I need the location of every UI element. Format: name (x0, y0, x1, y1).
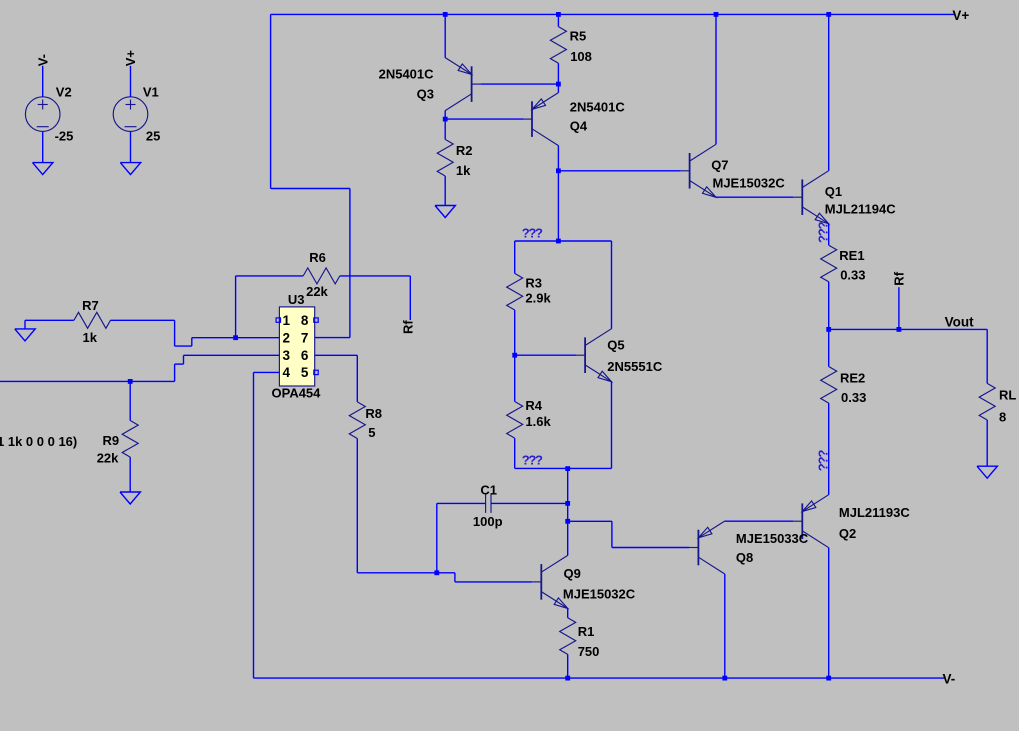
junction Q3 collector node (443, 117, 448, 122)
wire V2 bottom (42, 132, 44, 163)
wire pin6 right (315, 354, 358, 356)
junction rail x558 (556, 12, 561, 17)
junction rail x829 (826, 12, 831, 17)
wire Q1 collector to rail (828, 14, 830, 170)
resistor RE2 (821, 367, 837, 404)
wire ground stub R7 (24, 320, 26, 329)
wire Q3 base node (481, 83, 559, 85)
svg-text:8: 8 (999, 410, 1006, 425)
ground R2 (435, 206, 455, 218)
wire Q9 base jog 3 (455, 581, 532, 583)
ground V2 (33, 163, 53, 175)
svg-text:U3: U3 (288, 292, 305, 307)
svg-text:1.6k: 1.6k (525, 414, 551, 429)
wire input jog up2 (183, 355, 185, 364)
svg-text:R7: R7 (82, 298, 99, 313)
svg-text:R1: R1 (578, 624, 595, 639)
wire to Q8 base (612, 547, 690, 549)
wire RE1 to output node (828, 282, 830, 330)
svg-text:25: 25 (146, 128, 160, 143)
wire V- rail (254, 677, 945, 679)
junction bias bottom node (565, 466, 570, 471)
resistor R9 (122, 421, 138, 458)
wire R2 to ground (444, 176, 446, 206)
svg-text:1 1k 0 0 0 16): 1 1k 0 0 0 16) (0, 434, 77, 449)
wire pin4 down to V- rail (253, 372, 255, 678)
svg-text:RE2: RE2 (840, 371, 865, 386)
svg-text:R6: R6 (309, 250, 326, 265)
svg-text:Q5: Q5 (607, 338, 624, 353)
wire output to RE2 (828, 329, 830, 366)
svg-text:R5: R5 (570, 29, 587, 44)
svg-text:7: 7 (301, 330, 309, 345)
op-amp U3 OPA454 body (279, 307, 314, 386)
svg-text:V-: V- (943, 672, 956, 687)
wire Q9 emitter to R1 (567, 608, 569, 618)
wire Q4 collector down (557, 146, 559, 242)
wire Q1 emitter to RE1 (828, 224, 830, 246)
wire input jog up (174, 364, 176, 381)
wire pin2 lead (236, 337, 280, 339)
wire C1 left lead (437, 502, 486, 504)
wire R5 to Q4 emitter node (557, 63, 559, 84)
wire pin7 to x350 (315, 337, 350, 339)
wire horizontal to x350 (271, 188, 350, 190)
svg-text:R3: R3 (525, 275, 542, 290)
svg-text:R9: R9 (103, 433, 120, 448)
svg-text:-25: -25 (55, 128, 74, 143)
svg-text:R4: R4 (525, 398, 542, 413)
junction Q9 collector node (565, 519, 570, 524)
junction pin2 node (233, 335, 238, 340)
svg-text:MJE15033C: MJE15033C (736, 531, 809, 546)
wire R1 to V- rail (567, 654, 569, 678)
wire R7 to pin2 node (192, 337, 236, 339)
svg-text:V+: V+ (952, 8, 969, 23)
svg-text:???: ??? (816, 450, 831, 472)
transistor Q1 MJL21194C npn (793, 171, 828, 224)
wire R6 right lead (340, 275, 411, 277)
wire ground to R7 (25, 319, 74, 321)
resistor R5 (550, 27, 566, 64)
junction C1 right (565, 501, 570, 506)
junction R5 bottom node (556, 82, 561, 87)
svg-text:???: ??? (522, 226, 543, 241)
junction R9 tap (128, 379, 133, 384)
wire to Q5 base (515, 354, 576, 356)
resistor R3 (507, 273, 523, 310)
wire Q3 emitter to rail (444, 14, 446, 57)
U3 pin 1 marker (276, 318, 280, 322)
wire rail to R5 (557, 14, 559, 26)
wire V1 top (130, 66, 132, 97)
junction Q9 base node (434, 570, 439, 575)
wire Rf stub (898, 287, 900, 329)
svg-text:100p: 100p (473, 514, 503, 529)
wire to R3 (514, 241, 516, 273)
wire Q3 collector to Q4 base (445, 118, 523, 120)
resistor R8 (349, 402, 365, 439)
junction output node (826, 327, 831, 332)
wire Q5 collector up (611, 241, 613, 329)
wire R8 down (356, 439, 358, 573)
wire to pin3 (184, 354, 280, 356)
junction Q5 base node (512, 353, 517, 358)
wire Q3 collector down (444, 111, 446, 140)
wire jog down (611, 521, 613, 547)
svg-text:V-: V- (35, 54, 50, 66)
wire RE2 to Q2 emitter (828, 403, 830, 495)
transistor Q3 2N5401C pnp (445, 58, 480, 111)
wire bias bottom horizontal (515, 467, 612, 469)
svg-text:Q4: Q4 (570, 118, 588, 133)
svg-text:???: ??? (816, 221, 831, 243)
wire input jog right (175, 363, 184, 365)
svg-text:Q1: Q1 (825, 184, 842, 199)
wire Q5 emitter down (611, 382, 613, 469)
wire input long horizontal (0, 380, 175, 382)
svg-text:MJL21193C: MJL21193C (839, 505, 910, 520)
resistor R1 (560, 618, 576, 655)
junction bias top node (556, 239, 561, 244)
wire output to RL (829, 328, 988, 330)
svg-text:Vout: Vout (945, 315, 974, 330)
svg-text:C1: C1 (480, 482, 497, 497)
ground RL (977, 466, 997, 478)
wire bias node down to Q9 collector (567, 469, 569, 556)
capacitor C1 (486, 494, 491, 513)
svg-text:V1: V1 (143, 85, 159, 100)
svg-text:2.9k: 2.9k (525, 291, 551, 306)
U3 pin 5 marker (314, 370, 318, 374)
svg-text:MJE15032C: MJE15032C (563, 586, 636, 601)
svg-text:0.33: 0.33 (841, 390, 866, 405)
wire Q7 collector to rail (715, 14, 717, 144)
svg-text:6: 6 (301, 348, 309, 363)
wire V+ rail (271, 13, 954, 15)
wire R7 right (111, 319, 175, 321)
wire Q9 base jog 2 (454, 573, 456, 582)
svg-text:V+: V+ (123, 50, 138, 67)
svg-text:1: 1 (282, 313, 290, 328)
wire Q8 emitter to Q2 base (725, 520, 794, 522)
svg-text:22k: 22k (97, 450, 119, 465)
svg-text:1k: 1k (456, 163, 471, 178)
wire Q2 collector to V- rail (828, 548, 830, 679)
resistor R4 (507, 402, 523, 439)
wire to Rf label left (409, 276, 411, 320)
junction rail x445 (443, 12, 448, 17)
svg-text:Q2: Q2 (839, 526, 856, 541)
svg-text:RL: RL (999, 388, 1016, 403)
svg-text:750: 750 (578, 644, 600, 659)
svg-text:Q8: Q8 (736, 550, 753, 565)
resistor RL (979, 383, 995, 420)
wire Q7 emitter to Q1 base (716, 196, 793, 198)
resistor RE1 (821, 245, 837, 282)
wire R8 to Q9 base node (357, 572, 437, 574)
wire RL to ground (986, 420, 988, 466)
svg-text:4: 4 (282, 365, 290, 380)
transistor Q8 MJE15033C pnp (689, 521, 724, 574)
wire C1 left down (436, 503, 438, 572)
svg-text:3: 3 (282, 348, 290, 363)
svg-text:2: 2 (282, 330, 290, 345)
wire C1 right lead (491, 502, 568, 504)
transistor Q2 MJL21193C pnp (793, 495, 828, 548)
svg-text:MJE15032C: MJE15032C (713, 175, 786, 190)
junction V- rail x829 (826, 676, 831, 681)
svg-text:1k: 1k (83, 330, 98, 345)
svg-text:R8: R8 (365, 406, 382, 421)
svg-text:V2: V2 (56, 85, 72, 100)
wire R6 left lead (236, 275, 304, 277)
ground V1 (120, 163, 140, 175)
wire V1 bottom (130, 132, 132, 163)
junction Rf tap (897, 327, 902, 332)
wire vertical x350 to pin7 (349, 189, 351, 338)
wire R3 to Q5 base node (514, 310, 516, 355)
wire to Q7 base (558, 170, 680, 172)
svg-text:22k: 22k (306, 284, 328, 299)
svg-text:MJL21194C: MJL21194C (825, 201, 896, 216)
svg-text:2N5551C: 2N5551C (607, 359, 663, 374)
voltage source V2 symbol (25, 97, 60, 132)
junction V- rail x724 (722, 676, 727, 681)
wire R6 left down to pin2 node (235, 276, 237, 338)
wire bias top horizontal (515, 240, 612, 242)
transistor Q9 MJE15032C npn (532, 555, 567, 608)
svg-text:5: 5 (368, 425, 375, 440)
resistor R2 (437, 139, 453, 176)
U3 pin 8 marker (314, 318, 318, 322)
wire R7 jog right (175, 345, 192, 347)
wire Q9 collector to Q8 base jog (568, 520, 612, 522)
wire R9 to ground (129, 457, 131, 492)
svg-text:2N5401C: 2N5401C (379, 67, 435, 82)
junction VAS top node (556, 168, 561, 173)
svg-text:Rf: Rf (401, 320, 416, 334)
resistor R6 (303, 268, 340, 284)
wire pin6 down to R8 (356, 355, 358, 402)
wire R4 to bias bottom (514, 438, 516, 468)
wire pin4 lead (254, 371, 280, 373)
svg-text:???: ??? (522, 453, 543, 468)
wire R7 jog down (174, 320, 176, 346)
wire Q9 base jog 1 (437, 572, 455, 574)
wire Vout down to RL (986, 329, 988, 383)
svg-text:Q9: Q9 (564, 566, 581, 581)
wire Q8 collector to V- rail (724, 574, 726, 678)
transistor Q5 2N5551C npn (576, 329, 611, 382)
transistor Q7 MJE15032C npn (681, 144, 716, 197)
svg-text:0.33: 0.33 (840, 268, 865, 283)
transistor Q4 2N5401C pnp (523, 93, 558, 146)
junction V- rail x567 (565, 676, 570, 681)
wire V2 top (42, 66, 44, 97)
svg-text:OPA454: OPA454 (272, 385, 322, 400)
svg-text:5: 5 (301, 365, 309, 380)
svg-text:Q7: Q7 (711, 157, 728, 172)
wire Q4 emitter stub (557, 84, 559, 93)
svg-text:RE1: RE1 (839, 248, 864, 263)
svg-text:108: 108 (570, 49, 592, 64)
wire left drop from rail (270, 14, 272, 188)
svg-text:R2: R2 (456, 143, 473, 158)
svg-text:2N5401C: 2N5401C (570, 100, 626, 115)
ground R9 (120, 492, 140, 504)
svg-text:Rf: Rf (891, 271, 906, 285)
wire to R9 (129, 381, 131, 420)
wire R7 jog up (191, 338, 193, 346)
voltage source V1 symbol (113, 97, 148, 132)
resistor R7 (74, 312, 111, 328)
junction rail x716 (714, 12, 719, 17)
ground R7 (15, 329, 35, 341)
wire Q5 base node to R4 (514, 355, 516, 401)
svg-text:8: 8 (301, 313, 309, 328)
svg-text:Q3: Q3 (417, 87, 434, 102)
